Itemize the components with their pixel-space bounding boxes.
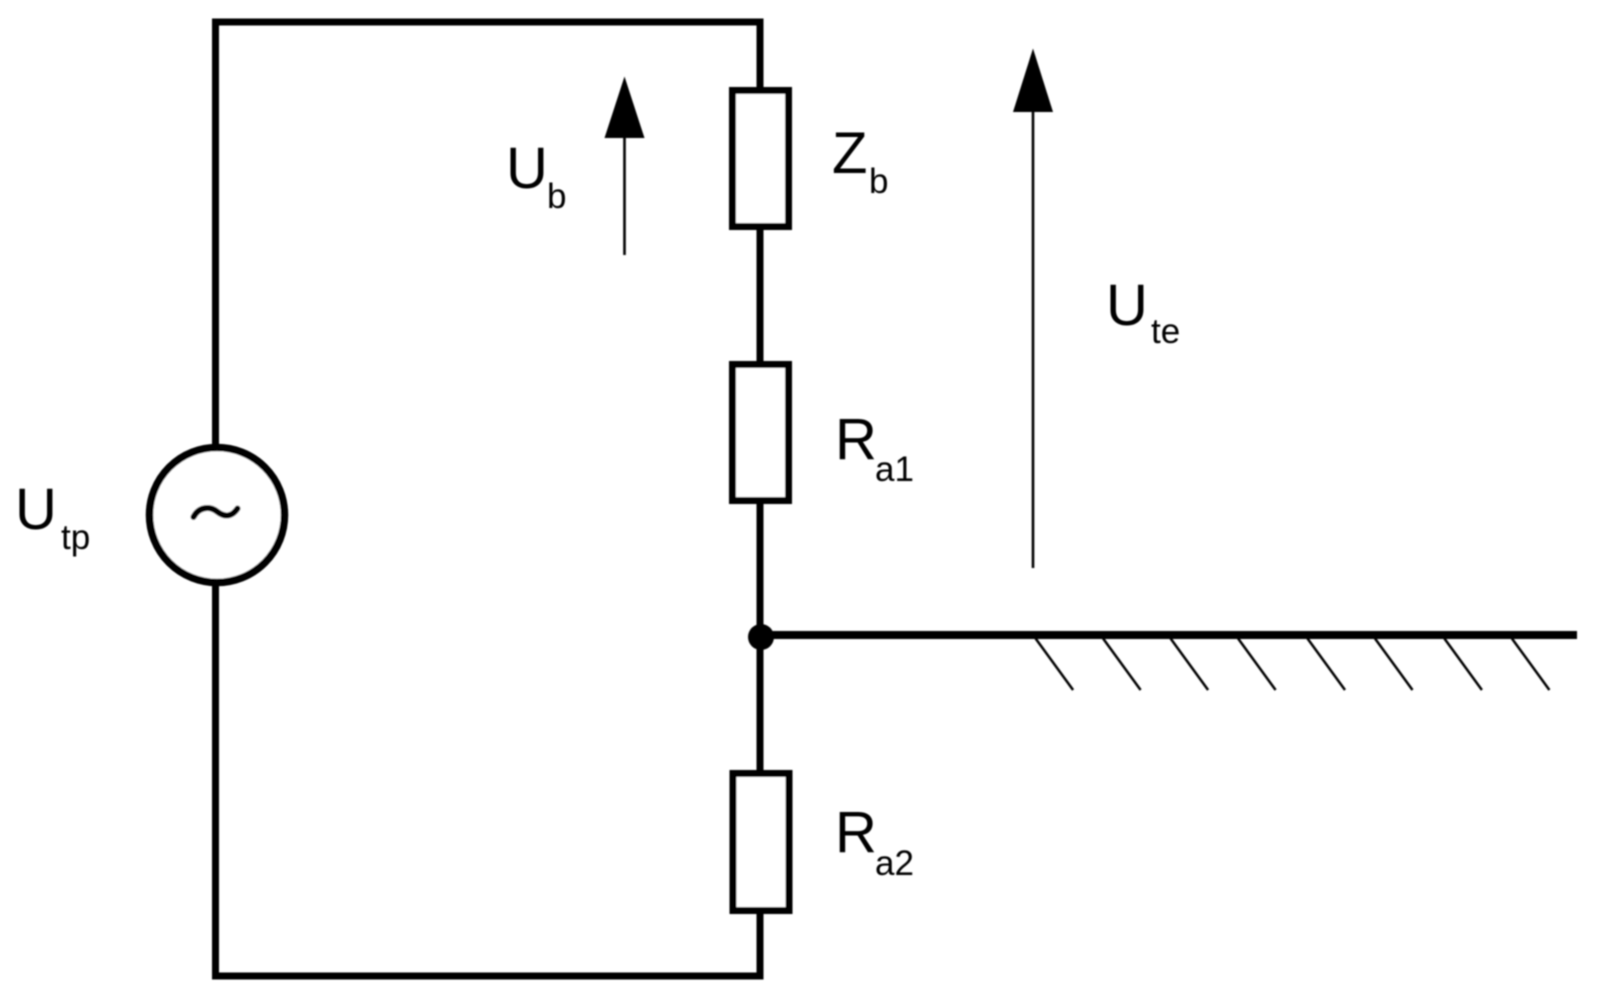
svg-text:R: R: [835, 407, 877, 472]
svg-text:b: b: [547, 177, 566, 216]
svg-text:Z: Z: [832, 121, 867, 186]
svg-text:U: U: [1106, 273, 1148, 338]
svg-text:te: te: [1151, 312, 1180, 351]
svg-text:a1: a1: [875, 450, 914, 489]
svg-text:R: R: [835, 800, 877, 865]
svg-text:tp: tp: [61, 518, 90, 557]
svg-text:b: b: [869, 162, 888, 201]
svg-text:a2: a2: [875, 844, 914, 883]
svg-text:U: U: [506, 136, 548, 201]
svg-text:U: U: [15, 477, 57, 542]
